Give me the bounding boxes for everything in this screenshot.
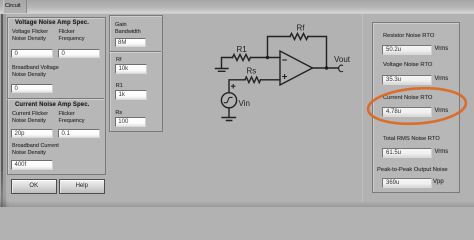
label Total RMS Noise RTO [383,136,440,144]
resistor R1 [233,55,251,61]
control Rs 100 [115,117,147,127]
bottom-left corner shadow [0,196,10,207]
bottom shadow [0,201,474,207]
indicator total rms 61.5u [382,148,432,159]
label Flicker Frequency 2 [59,111,85,126]
wire source to ground [228,108,230,117]
unit Vrms 4 [435,149,449,157]
label Broadband Voltage Noise Density [12,65,59,80]
middle controls strip [109,15,164,132]
control broadband voltage noise density [11,84,53,94]
label Resistor Noise RTO [383,33,434,41]
indicator resistor noise 50.2u [382,45,432,56]
right results panel [372,22,460,193]
Circuit tab [3,0,27,13]
op-amp plus sign [283,75,287,79]
source plus sign [232,85,235,88]
svg-text:Vout: Vout [334,55,351,64]
control R1 1k [115,90,147,100]
junction dot J2 [325,66,328,69]
control Rf 10k [115,64,147,74]
label Voltage Flicker Noise Density [12,29,48,44]
wire ground to R1 [222,58,233,69]
panel edge line [362,14,363,202]
control broadband current noise density 400f [11,160,53,170]
left parameter panel [7,17,106,175]
wire op-amp output [313,67,339,69]
group divider [7,98,104,99]
label Broadband Current Noise Density [12,143,59,158]
source waveform glyph [224,97,232,102]
unit Vrms 2 [435,76,449,84]
resistor Rf [290,34,308,40]
wire feedback riser [268,37,291,58]
indicator peak to peak 369u [382,178,432,189]
wire R1 to inverting input [251,57,281,59]
strip divider [109,51,162,52]
label Flicker Frequency [59,29,85,44]
wire Rs to non-inverting input [261,79,281,81]
svg-text:R1: R1 [237,45,248,54]
indicator voltage noise 35.3u [382,75,432,86]
label Rf [116,57,122,64]
control flicker frequency [58,49,100,59]
dark left window edge [0,14,1,207]
label Peak-to-Peak Output Noise [377,167,448,175]
control voltage flicker noise density [11,49,53,59]
unit Vrms 3 [435,108,449,116]
node Vout terminal [339,65,343,72]
unit Vrms [435,46,449,54]
label Voltage Noise RTO [383,62,432,70]
control flicker frequency 0.1 [58,129,100,139]
unit Vpp [433,179,444,187]
wire Rf to output [308,37,327,69]
control gain bandwidth 8M [115,38,147,48]
op-amp minus sign [283,59,287,61]
label R1 [116,83,123,90]
svg-text:Vin: Vin [239,99,250,108]
label Current Flicker Noise Density [12,111,48,126]
svg-text:Rf: Rf [297,24,306,33]
source Vin circle [221,93,236,108]
svg-text:Rs: Rs [247,67,257,76]
control current flicker noise density 20p [11,129,53,139]
indicator current noise 4.78u [382,107,432,118]
tab strip band [0,0,474,14]
label Rs [115,110,122,117]
annotation orange ellipse [367,85,467,127]
label Current Noise RTO [383,95,432,103]
group header Voltage Noise Amp Spec. [15,20,89,26]
ground G2 [222,118,236,121]
op-amp U1 [280,51,313,85]
resistor Rs [245,77,261,83]
OK button [11,179,57,194]
wire source to Rs [229,80,245,93]
label Gain Bandwidth [115,22,141,37]
Help button [59,179,105,194]
group header Current Noise Amp Spec. [15,102,89,108]
junction dot J1 [266,56,269,59]
ground G1 [216,69,229,72]
